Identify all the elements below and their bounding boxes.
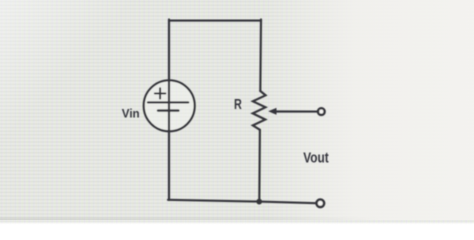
svg-text:R: R	[234, 97, 242, 113]
svg-text:Vin: Vin	[122, 108, 140, 121]
svg-text:Vout: Vout	[303, 151, 328, 167]
